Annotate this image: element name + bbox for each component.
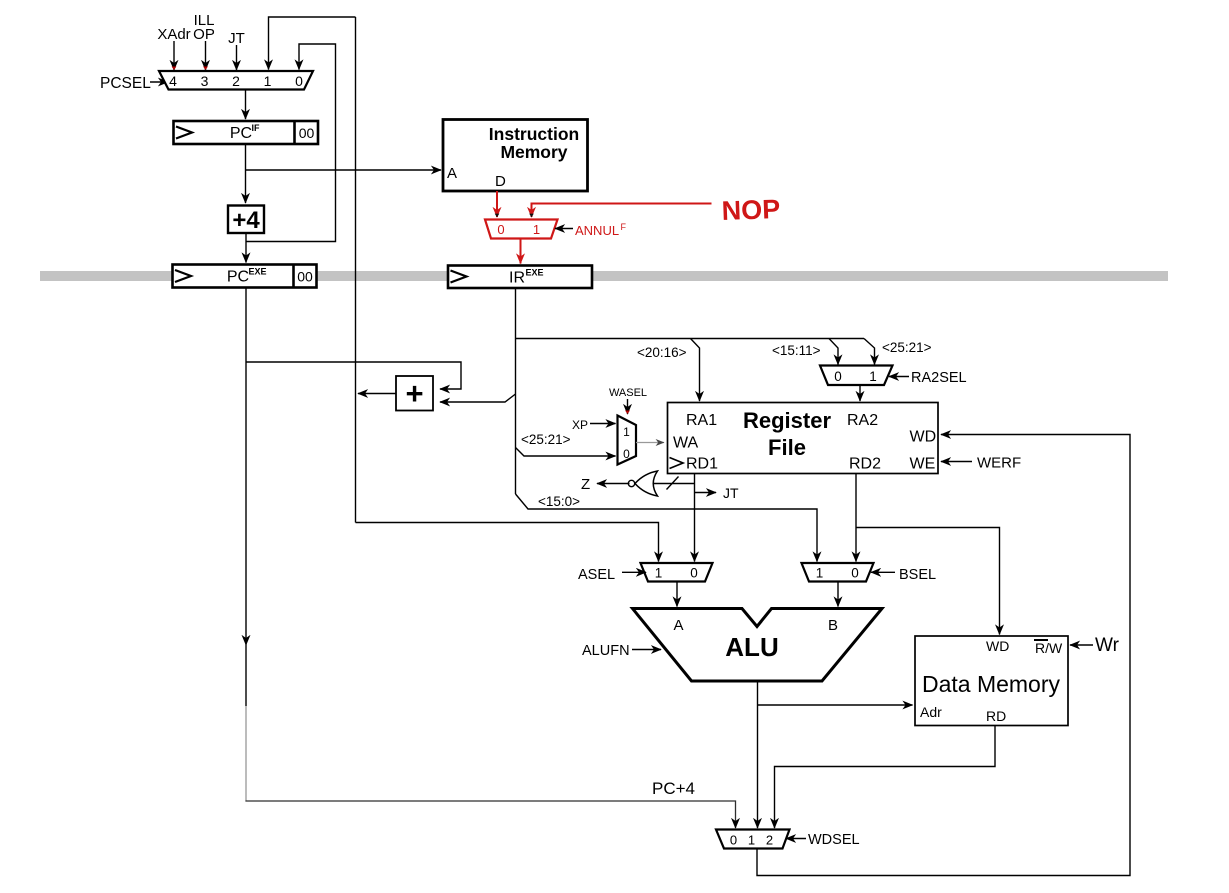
svg-text:1: 1 <box>623 425 630 439</box>
wire WERF into Register File WE <box>941 461 972 463</box>
svg-text:00: 00 <box>297 269 313 285</box>
svg-text:ANNUL: ANNUL <box>575 223 619 238</box>
svg-text:PC+4: PC+4 <box>652 779 695 798</box>
wire IR field 15:0 to BSEL input 1 <box>516 494 818 562</box>
wire adder output to PCSEL input 1 <box>269 17 356 70</box>
svg-text:XAdr: XAdr <box>157 26 190 43</box>
svg-text:R/W: R/W <box>1035 640 1063 656</box>
wire PC+4 faded segment <box>245 706 247 801</box>
svg-text:WA: WA <box>673 435 699 452</box>
register IR EXE <box>448 266 592 289</box>
wire RD1 to NOR gate with bus slash <box>652 483 695 485</box>
svg-text:0: 0 <box>730 833 737 848</box>
svg-text:F: F <box>621 222 627 232</box>
gate NOR Z detector <box>635 471 658 496</box>
wire instruction field bus horizontal <box>516 338 865 340</box>
wire IR output trunk <box>515 288 517 494</box>
svg-text:0: 0 <box>834 369 842 384</box>
svg-text:Register: Register <box>743 408 831 433</box>
svg-text:ALU: ALU <box>725 632 778 662</box>
svg-text:Z: Z <box>581 476 590 493</box>
svg-text:WD: WD <box>986 638 1009 654</box>
svg-text:Memory: Memory <box>500 142 567 162</box>
mux PCSEL <box>159 71 313 90</box>
wire Instruction Memory D output (red) <box>496 191 498 217</box>
wire JT into PCSEL input 2 <box>236 45 238 70</box>
svg-text:RD1: RD1 <box>686 456 718 473</box>
svg-text:3: 3 <box>201 73 209 89</box>
svg-text:0: 0 <box>690 566 698 581</box>
wire field 20:16 to RA1 <box>691 339 700 402</box>
svg-text:<15:11>: <15:11> <box>772 343 821 358</box>
svg-text:2: 2 <box>232 73 240 89</box>
svg-text:<25:21>: <25:21> <box>882 340 932 355</box>
svg-text:PC: PC <box>230 125 252 142</box>
wire ILL OP into PCSEL input 3 <box>203 41 208 70</box>
wire NOP into annul mux input 1 (red) <box>532 204 712 218</box>
mux BSEL <box>802 563 874 582</box>
svg-text:EXE: EXE <box>526 268 544 278</box>
svg-text:Wr: Wr <box>1095 635 1120 656</box>
register file box <box>668 403 939 474</box>
wire +4 output to PCSEL input 0 <box>246 44 336 242</box>
svg-text:XP: XP <box>572 418 588 432</box>
register PC IF <box>174 121 319 144</box>
wire BSEL select <box>871 571 895 573</box>
svg-text:RD2: RD2 <box>849 456 881 473</box>
svg-text:OP: OP <box>193 26 215 43</box>
svg-text:1: 1 <box>655 566 663 581</box>
memory Data Memory <box>915 636 1068 726</box>
svg-text:RD: RD <box>986 708 1006 724</box>
wire BSEL output to ALU B <box>837 582 839 607</box>
svg-text:1: 1 <box>533 222 540 237</box>
adder + (branch target) <box>396 376 433 411</box>
svg-text:BSEL: BSEL <box>899 567 936 583</box>
mux annul (red) <box>485 220 558 239</box>
svg-text:RA1: RA1 <box>686 412 717 429</box>
svg-text:0: 0 <box>295 73 303 89</box>
wire RA2SEL output to RA2 <box>859 385 861 401</box>
svg-text:Instruction: Instruction <box>489 124 579 144</box>
svg-text:Adr: Adr <box>920 704 942 720</box>
wire Z output <box>597 483 630 485</box>
svg-text:WDSEL: WDSEL <box>808 832 860 848</box>
svg-text:PCSEL: PCSEL <box>100 75 151 92</box>
pipeline stage divider gray band <box>40 271 1168 281</box>
svg-text:0: 0 <box>623 447 630 461</box>
wire Wr into Data Memory R/W <box>1070 644 1093 646</box>
svg-text:1: 1 <box>869 369 877 384</box>
wire ASEL select <box>622 571 646 573</box>
svg-text:<15:0>: <15:0> <box>538 494 580 509</box>
mux WASEL <box>618 416 637 465</box>
svg-text:+4: +4 <box>232 207 260 234</box>
svg-text:WERF: WERF <box>977 455 1021 472</box>
svg-text:A: A <box>673 617 683 634</box>
wire field 15:11 to RA2SEL input 0 <box>829 339 838 365</box>
PCSEL select line <box>150 81 168 83</box>
wire RA2SEL select <box>889 376 909 378</box>
svg-text:ASEL: ASEL <box>578 567 615 583</box>
svg-text:2: 2 <box>766 833 773 848</box>
wire WDSEL select <box>786 838 806 840</box>
svg-text:1: 1 <box>816 566 824 581</box>
svg-text:1: 1 <box>264 73 272 89</box>
wire RD2 output to BSEL input 0 <box>855 474 857 562</box>
svg-text:RA2SEL: RA2SEL <box>911 370 967 386</box>
wire PC IF output branch to Instruction Memory A <box>246 169 442 171</box>
svg-text:IR: IR <box>509 270 525 287</box>
svg-text:<20:16>: <20:16> <box>637 345 687 360</box>
wire ASEL output to ALU A <box>676 582 678 607</box>
svg-text:JT: JT <box>228 30 245 47</box>
svg-text:IF: IF <box>252 123 261 133</box>
svg-text:A: A <box>447 165 457 182</box>
wire PCSEL mux output to PC IF register <box>245 90 247 120</box>
mux ASEL <box>641 563 713 582</box>
svg-text:4: 4 <box>169 73 177 89</box>
wire PC EXE branch to adder input <box>246 362 461 389</box>
svg-text:0: 0 <box>497 222 504 237</box>
ALU <box>633 609 883 682</box>
wire adder output vertical trunk <box>355 17 357 523</box>
svg-text:<25:21>: <25:21> <box>521 432 571 447</box>
wire PC+4 to WDSEL input 0 <box>245 801 735 828</box>
svg-text:D: D <box>495 173 506 190</box>
wire XP to WASEL input 1 <box>590 423 616 425</box>
wire field 25:21 to RA2SEL input 1 <box>864 339 875 365</box>
mux RA2SEL <box>820 366 893 386</box>
svg-text:WE: WE <box>910 456 936 473</box>
svg-text:1: 1 <box>748 833 755 848</box>
svg-text:+: + <box>405 376 423 411</box>
wire +4 output to PC EXE register <box>245 233 247 263</box>
svg-text:00: 00 <box>299 125 315 141</box>
svg-text:NOP: NOP <box>721 194 781 226</box>
svg-text:WASEL: WASEL <box>609 387 647 399</box>
wire IR field to adder input 2 <box>440 394 516 402</box>
wire PC+4 lower segment continuation <box>245 645 247 706</box>
wire annul mux output to IR register (red) <box>520 239 522 264</box>
wire ANNUL F select <box>555 228 573 230</box>
register PC EXE <box>173 265 317 288</box>
wire IR field 25:21 to WASEL input 0 <box>516 448 616 457</box>
svg-text:Data Memory: Data Memory <box>922 671 1061 697</box>
wire RD2 branch to Data Memory WD <box>856 528 1000 635</box>
svg-text:WD: WD <box>910 429 937 446</box>
memory Instruction Memory <box>443 120 588 192</box>
svg-text:ALUFN: ALUFN <box>582 643 630 659</box>
adder +4 <box>228 206 264 235</box>
svg-text:RA2: RA2 <box>847 412 878 429</box>
wire PC EXE output down with mid arrow <box>245 288 247 646</box>
wire ALUFN select <box>632 649 661 651</box>
wire Data Memory RD to WDSEL input 2 <box>775 726 996 829</box>
wire ALU output to WDSEL input 1 <box>757 681 759 828</box>
svg-text:EXE: EXE <box>249 267 267 277</box>
svg-text:0: 0 <box>851 566 859 581</box>
wire PC IF output to +4 <box>245 144 247 203</box>
mux WDSEL <box>716 830 790 849</box>
svg-text:PC: PC <box>227 269 249 286</box>
wire XAdr into PCSEL input 4 <box>172 41 177 70</box>
wire WDSEL output feedback to Register File WD <box>757 435 1130 876</box>
wire WASEL output to WA <box>636 442 664 444</box>
wire JT branch from RD1 <box>695 492 717 494</box>
svg-text:JT: JT <box>723 485 739 501</box>
wire ALU output branch to Data Memory Adr <box>758 704 913 706</box>
wire WASEL select <box>625 399 630 414</box>
wire adder output to trunk <box>358 393 396 395</box>
svg-text:B: B <box>828 617 838 634</box>
wire RD1 output to ASEL input 0 <box>694 474 696 562</box>
wire trunk to ASEL input 1 <box>356 523 659 562</box>
svg-text:File: File <box>768 435 806 460</box>
